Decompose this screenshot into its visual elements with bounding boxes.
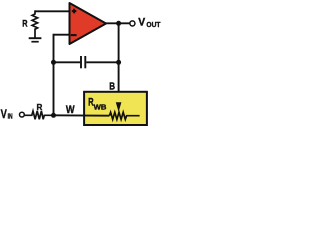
svg-text:R: R [22,17,27,28]
wire right vertical (output to wiper B) [118,23,120,103]
svg-text:V: V [1,108,7,121]
wire op-amp output [106,22,130,24]
svg-text:R: R [37,102,44,112]
node junction at output [116,21,121,26]
wiper arrow into RWB [116,102,122,112]
svg-text:OUT: OUT [146,20,160,29]
wire + input [35,10,70,12]
svg-text:B: B [109,81,115,92]
digital pot RWB box [84,92,147,125]
capacitor C1 [81,56,85,68]
svg-text:V: V [138,17,146,29]
svg-text:W: W [66,104,75,116]
wire W into box [54,114,110,116]
resistor RWB zigzag inside box [109,112,139,119]
node junction at cap row left [51,60,56,65]
terminal VIN (open circle) [20,112,25,117]
node junction bottom [51,113,56,118]
resistor R (top-left vertical) [32,10,38,37]
minus sign [71,34,77,36]
svg-text:WB: WB [94,102,107,111]
resistor R (bottom horizontal) [25,111,54,119]
svg-text:IN: IN [8,114,13,121]
wire cap row left [54,61,81,63]
wire - input [54,34,70,36]
terminal VOUT (open circle) [130,21,135,26]
ground [29,38,42,42]
op-amp U1 [70,3,107,44]
plus sign [72,9,77,14]
node junction at cap row right [116,60,121,65]
wire cap row right [86,61,118,63]
wire left vertical (feedback rail) [53,34,55,116]
